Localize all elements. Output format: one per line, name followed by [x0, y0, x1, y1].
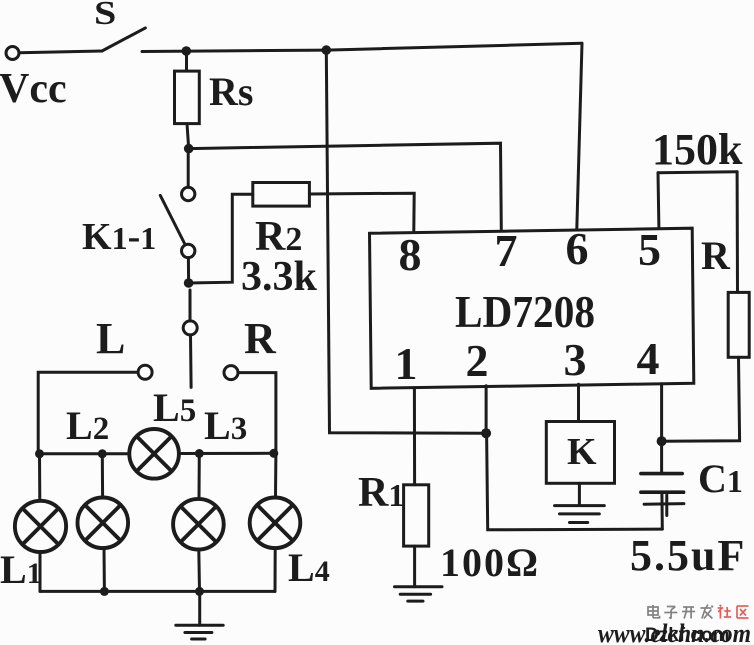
svg-text:150k: 150k [652, 125, 743, 174]
svg-text:Vcc: Vcc [0, 66, 67, 112]
svg-text:Rs: Rs [209, 69, 253, 114]
svg-text:C1: C1 [698, 456, 743, 501]
svg-text:2: 2 [466, 335, 489, 386]
svg-text:8: 8 [399, 229, 422, 280]
svg-text:K: K [567, 431, 597, 473]
svg-text:1: 1 [395, 338, 418, 389]
svg-text:R: R [701, 233, 731, 278]
svg-text:K1-1: K1-1 [82, 216, 156, 258]
svg-text:LD7208: LD7208 [455, 286, 595, 337]
svg-text:4: 4 [637, 333, 660, 384]
svg-text:S: S [94, 0, 116, 32]
svg-text:R: R [244, 314, 277, 363]
svg-text:5.5uF: 5.5uF [630, 531, 746, 580]
svg-text:3.3k: 3.3k [241, 254, 318, 300]
svg-text:R1: R1 [358, 470, 404, 516]
svg-text:www.elchn.com: www.elchn.com [598, 619, 751, 645]
svg-text:100Ω: 100Ω [440, 540, 540, 585]
svg-text:3: 3 [564, 334, 587, 385]
svg-text:6: 6 [566, 223, 589, 274]
svg-text:5: 5 [638, 224, 661, 275]
svg-text:L: L [96, 314, 125, 363]
svg-text:7: 7 [495, 225, 518, 276]
